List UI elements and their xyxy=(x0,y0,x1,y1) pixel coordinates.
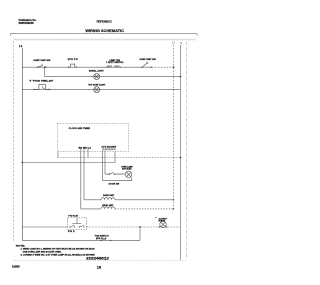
header rule xyxy=(10,34,197,36)
wire rung B xyxy=(45,76,181,78)
limit switch pair xyxy=(106,66,121,68)
svg-text:SOCKET: SOCKET xyxy=(122,169,133,171)
tear-off zigzag xyxy=(14,39,196,41)
svg-text:SIGNAL LIGHT: SIGNAL LIGHT xyxy=(89,69,104,72)
svg-text:BAKE UNIT: BAKE UNIT xyxy=(103,194,115,197)
node junction rung B / N xyxy=(180,76,182,78)
header publication number xyxy=(19,18,37,25)
wire lamp loop xyxy=(103,177,132,181)
TOD switch label xyxy=(95,236,109,240)
svg-text:1. WIRE CODE NO 1, WIRING OF U: 1. WIRE CODE NO 1, WIRING OF UNIT MUST B… xyxy=(21,248,96,251)
clock pin to rung F xyxy=(83,149,85,200)
wire L1 branch xyxy=(22,152,115,163)
wire drop rung A to rung B xyxy=(44,67,46,76)
svg-text:1 SPDT SWITCH: 1 SPDT SWITCH xyxy=(106,62,124,64)
svg-text:SURF UNIT SW: SURF UNIT SW xyxy=(33,60,50,62)
svg-text:18: 18 xyxy=(97,266,101,270)
wire N bus xyxy=(179,45,181,260)
wire lamp pin left xyxy=(102,150,104,180)
TOD switch xyxy=(100,238,111,241)
lamp C xyxy=(94,87,100,93)
thermostat TH2 xyxy=(34,84,50,90)
svg-text:▼P2 PLUG: ▼P2 PLUG xyxy=(68,214,79,217)
node junction L1 branch xyxy=(21,162,23,164)
connector P2 internal tee xyxy=(72,218,81,224)
schematic frame right border xyxy=(185,42,187,260)
svg-text:WIRING SCHEMATIC: WIRING SCHEMATIC xyxy=(85,29,124,33)
svg-text:5995438208: 5995438208 xyxy=(19,21,35,25)
clock pin stub to rung D xyxy=(87,149,89,158)
wire rung G xyxy=(81,208,101,210)
schematic frame bottom border xyxy=(14,259,187,261)
wire lamp pin right xyxy=(104,150,106,174)
svg-text:L1: L1 xyxy=(19,44,23,48)
svg-text:CLOCK AND TIMER: CLOCK AND TIMER xyxy=(69,127,91,130)
bake element coil xyxy=(101,198,115,200)
svg-text:370 TC: 370 TC xyxy=(68,59,79,61)
svg-text:N: N xyxy=(180,41,182,45)
wire L2 bus xyxy=(173,45,175,209)
oven lamp label xyxy=(121,165,133,170)
svg-text:NOTE:: NOTE: xyxy=(16,246,26,248)
svg-text:T TOD RELAY: T TOD RELAY xyxy=(29,80,54,83)
svg-text:FEF336BCC: FEF336BCC xyxy=(97,19,112,23)
svg-text:TOP SURF LIGHT: TOP SURF LIGHT xyxy=(88,84,106,86)
wire rung E left xyxy=(22,226,67,228)
node junction rung F / L2 xyxy=(173,199,175,201)
connector P2 contacts xyxy=(69,225,84,227)
node junction rung D / N xyxy=(180,157,182,159)
lamp C label xyxy=(88,84,106,86)
svg-text:B1 B2 L1: B1 B2 L1 xyxy=(79,148,91,150)
oven lamp xyxy=(125,171,131,177)
wire drop rung E to rung H xyxy=(139,227,141,240)
wire rung A xyxy=(22,66,152,68)
node junction rung A / drop xyxy=(44,66,46,68)
wire rung C xyxy=(22,88,180,90)
clock pin stub left xyxy=(57,152,59,158)
svg-text:DOOR SW: DOOR SW xyxy=(109,184,120,186)
wire rung D xyxy=(58,157,181,159)
switch S2 xyxy=(141,62,151,68)
wire rung F xyxy=(84,199,101,201)
fan motor xyxy=(159,221,168,228)
svg-text:*: * xyxy=(155,217,156,220)
svg-text:316246612: 316246612 xyxy=(86,256,109,260)
lamp B xyxy=(94,74,100,80)
wire rung H xyxy=(22,239,140,241)
clock pin to rung G xyxy=(80,149,82,209)
svg-text:P3 1: P3 1 xyxy=(68,231,75,233)
node junction rung G / L2 xyxy=(173,208,175,210)
node junction rung E xyxy=(139,226,141,228)
note text block xyxy=(16,246,95,257)
fan label xyxy=(159,218,168,222)
door switch xyxy=(105,172,125,174)
thermostat TH1 xyxy=(68,64,77,68)
broil element coil xyxy=(101,207,115,209)
clock and timer box xyxy=(57,123,128,151)
wire rung G right xyxy=(115,208,174,210)
wire rung E right xyxy=(87,226,181,228)
node junction rung A / L2 xyxy=(173,66,175,68)
svg-text:ONE OVEN LAMP AND SOCKET USED.: ONE OVEN LAMP AND SOCKET USED. xyxy=(23,250,62,253)
limit switch pair label xyxy=(106,60,124,64)
wire rung F right xyxy=(115,199,174,201)
switch S1 xyxy=(37,64,47,68)
svg-text:61985: 61985 xyxy=(12,266,20,269)
svg-text:2. CONNECT WIRE NO. 2 AT OVEN: 2. CONNECT WIRE NO. 2 AT OVEN LAMP IN AL… xyxy=(21,254,96,257)
svg-text:SURF UNIT SW: SURF UNIT SW xyxy=(140,59,156,61)
connector P1 body xyxy=(103,148,115,151)
wire L1 bus xyxy=(21,48,23,240)
connector P2 box xyxy=(68,218,87,230)
schematic frame left border xyxy=(13,41,15,242)
